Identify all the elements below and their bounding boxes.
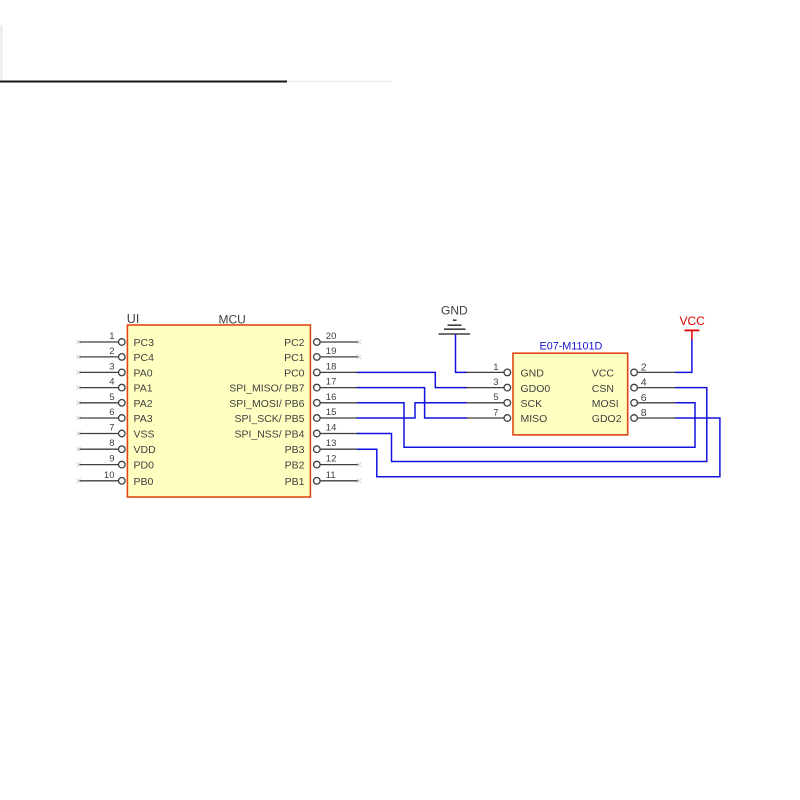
svg-text:8: 8: [109, 438, 114, 449]
svg-text:4: 4: [109, 377, 114, 388]
wire SPI_SCK/PB5 to SCK: [358, 403, 467, 418]
MCU pin 16 SPI_MOSI/ PB6: [229, 392, 358, 410]
svg-text:SPI_NSS/ PB4: SPI_NSS/ PB4: [234, 429, 304, 441]
svg-text:PC4: PC4: [134, 352, 155, 364]
svg-text:SPI_SCK/ PB5: SPI_SCK/ PB5: [234, 413, 304, 425]
svg-text:9: 9: [109, 454, 114, 465]
MCU pin 9 PD0: [76, 454, 154, 472]
svg-text:20: 20: [326, 331, 337, 342]
svg-text:MISO: MISO: [521, 413, 548, 425]
svg-text:10: 10: [104, 470, 115, 481]
svg-text:7: 7: [109, 423, 114, 434]
svg-text:17: 17: [326, 377, 337, 388]
svg-text:19: 19: [326, 346, 337, 357]
svg-text:5: 5: [109, 392, 114, 403]
MCU pin 5 PA2: [76, 392, 152, 410]
svg-text:GDO0: GDO0: [521, 383, 551, 395]
svg-text:3: 3: [493, 377, 498, 388]
MCU pin 7 VSS: [76, 423, 154, 441]
wire PB3 to GDO2: [358, 418, 720, 477]
svg-text:GDO2: GDO2: [592, 413, 622, 425]
MCU pin 8 VDD: [76, 438, 156, 456]
E07 pin 3 GDO0: [465, 377, 550, 395]
svg-text:PB3: PB3: [285, 444, 305, 456]
svg-text:12: 12: [326, 454, 337, 465]
svg-text:VSS: VSS: [134, 429, 155, 441]
power symbol VCC: [680, 314, 706, 340]
MCU pin 12 PB2: [285, 454, 362, 472]
wire SPI_MISO/PB7 to MISO: [358, 388, 467, 418]
wire GND net: ground symbol to E07 pin 1: [456, 335, 467, 373]
svg-text:PB2: PB2: [285, 460, 305, 472]
svg-text:15: 15: [326, 407, 337, 418]
E07 pin 4 CSN: [592, 377, 677, 395]
svg-text:VDD: VDD: [134, 444, 157, 456]
svg-text:2: 2: [641, 361, 647, 373]
MCU pin 18 PC0: [284, 361, 358, 379]
svg-text:PB0: PB0: [134, 476, 154, 488]
svg-text:VCC: VCC: [592, 368, 615, 380]
svg-text:PC0: PC0: [284, 367, 305, 379]
svg-text:PC2: PC2: [284, 337, 305, 349]
svg-text:E07-M1101D: E07-M1101D: [540, 340, 603, 352]
wire PC0 to GDO0: [358, 372, 467, 387]
svg-text:18: 18: [326, 361, 337, 372]
MCU pin 11 PB1: [285, 470, 362, 488]
svg-text:MOSI: MOSI: [592, 398, 619, 410]
svg-text:PD0: PD0: [134, 460, 155, 472]
svg-text:PA3: PA3: [134, 413, 153, 425]
MCU pin 14 SPI_NSS/ PB4: [234, 423, 357, 441]
left margin artifact line: [0, 25, 3, 80]
MCU pin 13 PB3: [285, 438, 358, 456]
MCU pin 10 PB0: [76, 470, 153, 488]
E07 pin 8 GDO2: [592, 407, 677, 425]
svg-text:1: 1: [493, 362, 498, 373]
svg-text:2: 2: [109, 346, 114, 357]
svg-text:GND: GND: [441, 304, 468, 318]
svg-text:13: 13: [326, 438, 337, 449]
svg-text:MCU: MCU: [219, 313, 246, 327]
svg-text:UI: UI: [127, 312, 140, 326]
svg-text:PB1: PB1: [285, 476, 305, 488]
MCU pin 1 PC3: [76, 331, 154, 349]
MCU pin 6 PA3: [76, 407, 152, 425]
wire SPI_NSS/PB4 to CSN: [358, 388, 707, 462]
MCU U1 body: [127, 325, 310, 497]
svg-text:7: 7: [493, 407, 498, 418]
svg-text:PA1: PA1: [134, 383, 153, 395]
MCU pin 20 PC2: [284, 331, 361, 349]
svg-text:SPI_MISO/ PB7: SPI_MISO/ PB7: [229, 383, 304, 395]
MCU pin 2 PC4: [76, 346, 154, 364]
E07 pin 2 VCC: [592, 361, 677, 379]
svg-text:PA2: PA2: [134, 398, 153, 410]
svg-text:6: 6: [641, 392, 647, 404]
svg-text:PC3: PC3: [134, 337, 155, 349]
svg-text:3: 3: [109, 361, 114, 372]
MCU pin 3 PA0: [76, 361, 152, 379]
svg-text:PC1: PC1: [284, 352, 305, 364]
svg-text:8: 8: [641, 407, 647, 419]
E07 pin 5 SCK: [465, 392, 542, 410]
ground symbol GND: [439, 304, 471, 334]
svg-text:4: 4: [641, 377, 647, 389]
wire VCC net: power symbol to E07 pin 2: [676, 340, 692, 372]
svg-text:1: 1: [109, 331, 114, 342]
svg-text:PA0: PA0: [134, 367, 153, 379]
svg-text:SCK: SCK: [521, 398, 543, 410]
MCU pin 19 PC1: [284, 346, 361, 364]
svg-text:SPI_MOSI/ PB6: SPI_MOSI/ PB6: [229, 398, 304, 410]
svg-text:GND: GND: [521, 368, 545, 380]
svg-text:CSN: CSN: [592, 383, 614, 395]
MCU pin 17 SPI_MISO/ PB7: [229, 377, 358, 395]
svg-text:6: 6: [109, 407, 114, 418]
svg-text:11: 11: [326, 470, 336, 481]
MCU pin 4 PA1: [76, 377, 152, 395]
top horizontal rule: [287, 81, 392, 83]
svg-text:5: 5: [493, 392, 498, 403]
svg-text:VCC: VCC: [680, 314, 706, 328]
E07 pin 7 MISO: [465, 407, 547, 425]
svg-text:16: 16: [326, 392, 337, 403]
module E07-M1101D body: [513, 353, 628, 435]
E07 pin 1 GND: [465, 362, 544, 380]
wire SPI_MOSI/PB6 to MOSI: [358, 403, 696, 448]
E07 pin 6 MOSI: [592, 392, 677, 410]
MCU pin 15 SPI_SCK/ PB5: [234, 407, 357, 425]
svg-text:14: 14: [326, 423, 337, 434]
